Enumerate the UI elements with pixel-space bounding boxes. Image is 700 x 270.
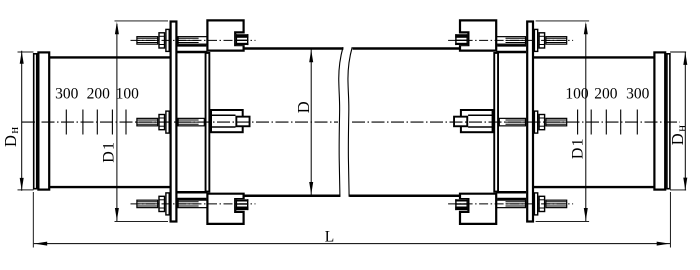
svg-text:200: 200	[87, 86, 111, 103]
svg-text:300: 300	[626, 86, 650, 103]
svg-text:100: 100	[116, 86, 140, 103]
svg-text:D: D	[294, 101, 313, 113]
svg-text:300: 300	[55, 86, 79, 103]
svg-text:200: 200	[594, 86, 618, 103]
svg-text:100: 100	[565, 86, 589, 103]
svg-text:D1: D1	[101, 141, 118, 163]
svg-text:L: L	[325, 229, 334, 246]
svg-text:D1: D1	[569, 137, 586, 159]
